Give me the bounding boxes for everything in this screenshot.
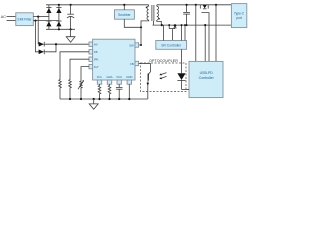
transformer T1 primary winding: [141, 5, 149, 28]
wire EMI to bridge line 1: [33, 16, 49, 18]
pin VCC: [116, 75, 122, 84]
wire secondary return rail: [153, 24, 232, 26]
wire SR controller right sense: [184, 25, 186, 40]
diode D6 HV sense bottom: [39, 49, 45, 54]
wire LED cathode to USB-PD: [182, 89, 190, 91]
wire USB-PD CC: [215, 5, 217, 62]
diode D5 HV sense top: [39, 42, 45, 47]
node dot SW corner: [140, 44, 142, 46]
ground secondary symbol: [89, 99, 98, 109]
svg-text:FB: FB: [94, 50, 98, 54]
svg-text:EMI Filter: EMI Filter: [18, 17, 33, 21]
resistor R1 FB: [59, 79, 62, 99]
Type-C port block: [231, 4, 246, 28]
svg-text:USB-PD: USB-PD: [200, 71, 214, 75]
diode D3 bridge col1 bottom: [46, 21, 51, 26]
node dot USB-PD ground tap: [204, 24, 206, 26]
wire EMI to bridge line 2: [33, 20, 59, 22]
svg-text:FCL: FCL: [97, 75, 103, 79]
optocoupler dashed box: [141, 63, 187, 92]
node dot top rail w1: [195, 4, 197, 6]
node dot rail c4: [118, 98, 120, 100]
node dot SR right sense: [184, 24, 186, 26]
diode D1 bridge col1 top: [46, 8, 51, 13]
svg-text:SR Controller: SR Controller: [161, 43, 182, 47]
wire FB pin to divider: [60, 52, 89, 79]
wire opto emitter down: [147, 85, 149, 99]
pin FB left: [89, 50, 98, 55]
wire SR controller left sense: [163, 25, 165, 40]
node dot SR source: [174, 24, 176, 26]
pin GDA: [106, 75, 112, 84]
node dot rail gndpin: [128, 98, 130, 100]
node dot bottom rail cap: [70, 28, 72, 30]
diode D4 bridge col2 bottom: [56, 21, 61, 26]
wire LED feed lower: [181, 49, 183, 63]
diode VBUS switch body diode: [203, 5, 207, 9]
svg-text:FB: FB: [130, 62, 134, 66]
wire secondary top rail to Type-C: [157, 4, 232, 6]
svg-text:FLT: FLT: [94, 65, 99, 69]
svg-text:Type-C: Type-C: [234, 11, 245, 15]
EMI filter block: [16, 13, 34, 26]
wire IPK pin to resistor: [70, 59, 89, 79]
capacitor C1 bulk: [67, 5, 74, 30]
wire USB-PD ground: [204, 25, 206, 61]
node dot top rail w4: [215, 4, 217, 6]
pin IPK: [89, 57, 99, 62]
transformer T1 core: [152, 5, 154, 21]
node dot rail gnd: [93, 98, 95, 100]
svg-text:IPK: IPK: [94, 58, 99, 62]
pin HV: [89, 42, 98, 47]
svg-text:HV: HV: [94, 43, 98, 47]
node dot secondary return: [161, 24, 163, 26]
opto light arrow 2: [159, 76, 166, 79]
node dot snubber tap: [123, 4, 125, 6]
resistor R2 IPK: [69, 79, 72, 99]
wire SW node vertical: [139, 27, 141, 45]
node dot SW-snubber junction: [140, 26, 142, 28]
node junction dot on line 1: [37, 16, 39, 18]
svg-text:SW: SW: [129, 43, 134, 47]
pin FLT: [89, 64, 99, 69]
wire D6 cathode joiner: [44, 44, 56, 52]
wire D5 cathode to HV pin: [44, 43, 89, 45]
wire HV sense drop A: [35, 21, 39, 52]
node dot cap top: [186, 4, 188, 6]
wire FB to opto collector: [139, 63, 151, 65]
diode SR body diode: [173, 25, 177, 28]
wire HV sense drop B: [37, 17, 39, 45]
transistor Q2 SR FET: [169, 25, 175, 40]
wire primary ground rail: [60, 98, 148, 100]
resistor R3 FLT adjustable: [78, 80, 84, 99]
wire GND pin down: [128, 84, 130, 99]
wire top rail to snubber: [123, 5, 125, 10]
svg-text:Snubber: Snubber: [118, 13, 131, 17]
wire bridge top rail to transformer: [46, 4, 149, 6]
wire snubber to SW node: [124, 19, 141, 27]
IC U1 flyback controller: [93, 39, 135, 80]
node dot top rail cap: [70, 4, 72, 6]
snubber block: [115, 10, 135, 19]
svg-text:AC: AC: [1, 15, 6, 19]
diode LED in optocoupler: [177, 63, 185, 90]
pin GND: [126, 75, 132, 84]
wire LED feed upper: [181, 25, 183, 40]
svg-text:port: port: [236, 16, 242, 20]
node dot SR drain: [168, 24, 170, 26]
pin SW: [129, 43, 138, 48]
opto light arrow 1: [159, 73, 166, 76]
wire bridge column 1: [48, 5, 50, 30]
transistor Q1 opto phototransistor: [147, 64, 151, 86]
wire AC line 1: [7, 16, 16, 18]
transistor Q3 VBUS switch: [200, 5, 209, 62]
capacitor C3 output: [183, 5, 190, 25]
node junction dot on line 2: [34, 20, 36, 22]
svg-text:Controller: Controller: [199, 76, 215, 80]
wire FLT pin to thermistor: [81, 67, 89, 81]
node junction dot HV: [55, 43, 57, 45]
USB-PD controller block: [189, 61, 223, 97]
pin FB right: [130, 61, 138, 66]
transformer T1 secondary winding: [157, 5, 162, 25]
resistor R4 under FCL: [98, 84, 101, 99]
resistor R5 under GDA: [108, 84, 111, 99]
node dot top rail col2: [58, 4, 60, 6]
svg-text:GND: GND: [126, 75, 132, 79]
capacitor C4 under VCC: [116, 84, 123, 99]
wire bridge bottom rail: [46, 28, 75, 30]
SR controller block: [156, 41, 187, 50]
node dot bottom rail col2: [58, 28, 60, 30]
svg-text:OPTOCOUPLER: OPTOCOUPLER: [149, 59, 178, 63]
svg-text:VCC: VCC: [116, 75, 122, 79]
node dot cap bottom: [186, 24, 188, 26]
pin FCL: [97, 75, 103, 84]
node dot LED feed: [181, 24, 183, 26]
node dot rail r2: [69, 98, 71, 100]
ground primary: [66, 29, 75, 42]
node dot rail r4: [98, 98, 100, 100]
node dot rail r3: [80, 98, 82, 100]
wire core stub to return rail: [152, 21, 154, 25]
diode D2 bridge col2 top: [56, 8, 61, 13]
wire bridge column 2: [58, 5, 60, 30]
wire AC line 2: [7, 20, 16, 22]
svg-text:GDA: GDA: [106, 75, 112, 79]
wire USB-PD VBUS sense: [195, 5, 197, 62]
node dot rail r5: [108, 98, 110, 100]
